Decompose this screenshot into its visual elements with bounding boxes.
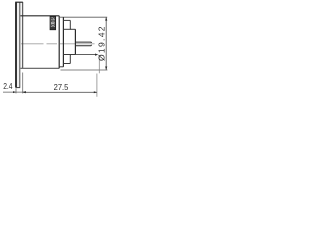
- centerline: [21, 43, 95, 45]
- dia 19.42 bottom arrowhead: [105, 67, 107, 70]
- gasket interior shading: [20, 3, 22, 68]
- thread spec box bottom band: [51, 27, 56, 29]
- body top edge: [20, 15, 59, 17]
- dia 19.42 top arrowhead: [105, 17, 107, 20]
- panel bottom closure: [15, 87, 20, 89]
- thread spec box: [50, 16, 55, 29]
- connector box rear face: [74, 29, 76, 54]
- terminal pin top edge: [75, 41, 91, 44]
- leader line from connector bottom: [75, 54, 95, 56]
- dim 2.4 extension line left: [15, 88, 17, 93]
- second step bottom edge: [63, 63, 70, 65]
- connector box top edge: [63, 28, 75, 30]
- dia 19.42 dimension line: [105, 17, 107, 70]
- svg-text:2.4: 2.4: [3, 82, 13, 91]
- leader arrowhead: [95, 54, 98, 56]
- dim 2.4 dimension line: [3, 91, 26, 93]
- terminal pin bottom edge: [75, 44, 91, 47]
- connector box bottom edge: [63, 54, 75, 56]
- svg-text:Ø19.42: Ø19.42: [96, 26, 106, 61]
- rear hub rear face: [62, 17, 64, 67]
- panel cross-section right edge: [19, 2, 21, 87]
- second step top edge: [63, 19, 70, 21]
- panel cross-section left edge: [15, 2, 17, 87]
- dim 2.4 extension line right: [22, 73, 24, 94]
- dim 27.5 right extension line: [96, 74, 98, 97]
- svg-text:0.05: 0.05: [51, 17, 57, 27]
- panel interior shading: [17, 3, 20, 87]
- dim 27.5 dimension line: [23, 91, 97, 93]
- dim 27.5 right arrowhead: [94, 91, 97, 93]
- body rear face: [58, 16, 60, 69]
- second step rear face lower: [69, 55, 72, 64]
- panel top edge: [15, 1, 23, 3]
- dia 19.42 bottom extension line: [61, 69, 108, 71]
- leader drop to extension: [98, 55, 100, 73]
- rear hub bottom edge: [59, 66, 63, 68]
- rear hub top edge + extension line for dia 19.42: [59, 16, 107, 18]
- gasket rear edge: [22, 2, 24, 68]
- dim 2.4 right arrowhead: [23, 91, 26, 93]
- dim 2.4 left arrowhead: [13, 91, 16, 93]
- body bottom edge: [20, 67, 59, 69]
- svg-text:27.5: 27.5: [54, 82, 69, 92]
- dim 27.5 left arrowhead: [23, 91, 26, 93]
- second step rear face upper: [69, 20, 72, 29]
